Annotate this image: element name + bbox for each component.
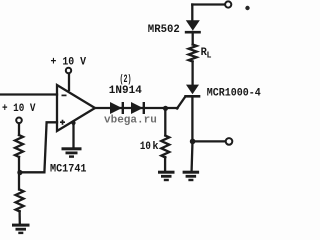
svg-text:vbega.ru: vbega.ru xyxy=(104,115,157,127)
svg-text:MR502: MR502 xyxy=(148,24,180,36)
svg-text:1N914: 1N914 xyxy=(109,85,142,97)
svg-text:k: k xyxy=(152,141,159,153)
svg-text:+ 10 V: + 10 V xyxy=(2,103,36,115)
svg-text:MC1741: MC1741 xyxy=(50,164,87,176)
svg-text:+ 10 V: + 10 V xyxy=(51,57,87,69)
svg-text:MCR1000-4: MCR1000-4 xyxy=(207,88,261,100)
svg-text:10: 10 xyxy=(140,141,151,153)
svg-text:L: L xyxy=(207,51,212,61)
svg-text:(2): (2) xyxy=(120,74,132,86)
